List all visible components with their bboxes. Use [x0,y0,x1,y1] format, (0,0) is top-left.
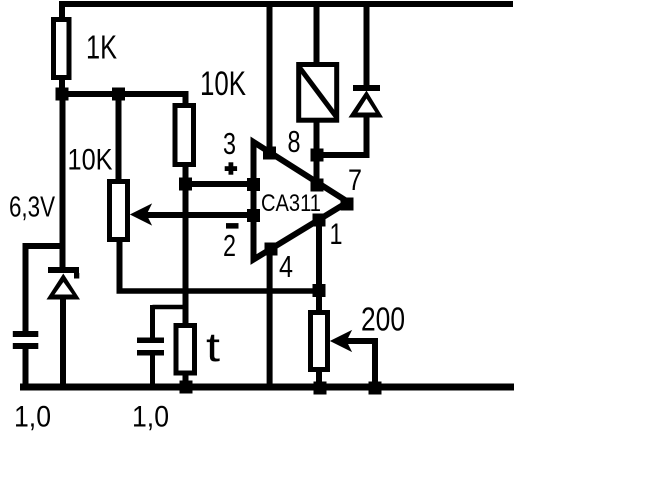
plus sign [225,166,237,171]
wire R2 node down to thermistor [183,184,189,326]
svg-text:4: 4 [279,249,293,284]
wire RV2 bottom leg [316,370,322,390]
zener D1 cathode bar [48,267,79,273]
wire C1 bottom leg [23,348,29,390]
resistor R2 10K body [175,106,194,165]
svg-text:1K: 1K [86,29,117,66]
svg-text:t: t [206,324,221,370]
wire top supply rail [59,1,513,7]
wire pin 1 down to RV2 [316,220,322,313]
wire pin 4 down to rail [267,249,273,390]
pin 1 junction square [313,214,326,227]
node junction R1 bottom [56,88,69,101]
pin 7 output pad [341,198,354,211]
zener D1 triangle [47,274,81,300]
node junction RV1 top [112,88,125,101]
thermistor Rt body [176,326,195,374]
wire R2 bottom leg [183,165,189,184]
diode D2 triangle [349,91,384,118]
capacitor C1 top plate [13,331,39,337]
wire relay bottom leg to pin 7 [314,120,320,187]
wire RV2 wiper shaft [344,338,378,344]
pin 7 junction square [311,179,324,192]
node junction RV2 rail [314,382,327,395]
wire node A horizontal [62,91,186,97]
wire pot RV1 bottom leg [117,240,123,291]
svg-text:200: 200 [361,301,405,338]
potentiometer RV2 200 body [311,313,328,370]
svg-text:7: 7 [348,164,362,197]
capacitor C2 bottom plate [137,350,164,356]
wire RV1 wiper to minus input [142,212,253,218]
potentiometer RV1 10K body [110,182,128,240]
wire R1 bottom leg [59,78,65,98]
node junction thermistor rail [180,381,193,394]
node junction pin1 RV2 [313,284,326,297]
wire pot RV1 top leg [116,94,122,182]
node junction R2 bottom [179,178,192,191]
capacitor C1 bottom plate [13,343,39,349]
svg-text:1,0: 1,0 [14,401,51,434]
svg-text:6,3V: 6,3V [9,192,55,224]
minus sign [226,223,239,229]
svg-text:10K: 10K [200,65,246,103]
relay K1 diagonal [300,68,337,118]
svg-text:2: 2 [223,228,236,263]
resistor R1 1K body [54,20,70,78]
svg-text:10K: 10K [68,144,113,177]
pin 8 junction square [263,147,276,160]
diode D2 cathode bar [353,85,380,91]
wire thermistor bottom leg [183,373,189,390]
potentiometer RV1 wiper arrow [131,205,151,225]
relay K1 body [299,65,337,121]
potentiometer RV2 wiper arrow [331,331,351,351]
svg-text:CA311: CA311 [261,190,321,217]
zener D1 cathode hook [74,273,79,279]
svg-text:1,0: 1,0 [132,401,169,434]
wire diode D2 top leg [364,1,370,87]
svg-text:3: 3 [223,126,236,161]
capacitor C2 top plate [137,338,164,344]
wire bottom ground rail [20,384,514,391]
wire left branch horizontal [23,243,65,249]
wire diode to relay link [314,152,370,158]
wire corner to R2 top [183,91,189,106]
wire R1 top leg [59,1,65,20]
wire zener top leg [60,98,66,268]
wire node B horizontal to pin1 [117,288,320,294]
op-amp U1 CA311 triangle [254,142,349,260]
node junction wiper rail [369,382,382,395]
wire C1 top leg [23,243,29,331]
pin 4 junction square [265,243,278,256]
wire plus input from R2 [186,181,254,187]
wire C2 top stub horizontal [153,305,187,310]
wire relay top leg [314,1,320,66]
wire diode D2 bottom leg [364,115,370,158]
svg-text:1: 1 [330,218,343,251]
wire zener bottom leg [60,298,66,390]
wire pin 8 from rail [267,1,273,153]
pin 3 junction square [247,178,260,191]
wire RV2 wiper down to rail [372,341,378,390]
wire C2 bottom leg [150,355,155,390]
pin 2 junction square [247,209,260,222]
svg-text:8: 8 [288,124,301,159]
wire C2 top stub vertical [150,305,155,338]
node junction relay diode [311,149,324,162]
